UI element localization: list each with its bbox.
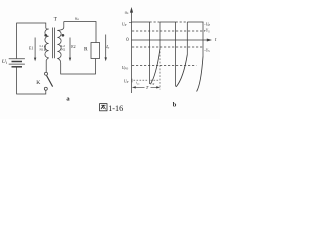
svg-text:t: t — [215, 38, 217, 43]
svg-text:UP: UP — [122, 22, 127, 27]
svg-text:K: K — [36, 80, 40, 86]
svg-text:a: a — [66, 96, 70, 103]
svg-text:toff: toff — [151, 81, 155, 86]
svg-text:uo: uo — [75, 15, 79, 21]
svg-text:E1: E1 — [29, 47, 33, 51]
svg-text:Ui: Ui — [2, 59, 7, 65]
svg-text:uo: uo — [125, 9, 129, 15]
svg-text:1-16: 1-16 — [108, 104, 123, 113]
svg-text:R: R — [84, 47, 88, 53]
svg-text:N1: N1 — [40, 48, 44, 52]
svg-text:N2: N2 — [61, 48, 65, 52]
svg-text:T: T — [146, 85, 149, 90]
svg-text:0: 0 — [126, 38, 129, 43]
svg-text:T: T — [54, 17, 58, 23]
svg-text:b: b — [173, 102, 177, 109]
svg-text:E2: E2 — [71, 45, 75, 49]
svg-text:UPO: UPO — [122, 66, 129, 71]
svg-text:ton: ton — [136, 81, 140, 86]
svg-text:Io: Io — [105, 44, 109, 50]
svg-text:-US: -US — [204, 48, 210, 53]
svg-text:UP: UP — [124, 80, 129, 85]
svg-text:-UP: -UP — [204, 22, 210, 27]
svg-text:-US: -US — [204, 29, 210, 34]
